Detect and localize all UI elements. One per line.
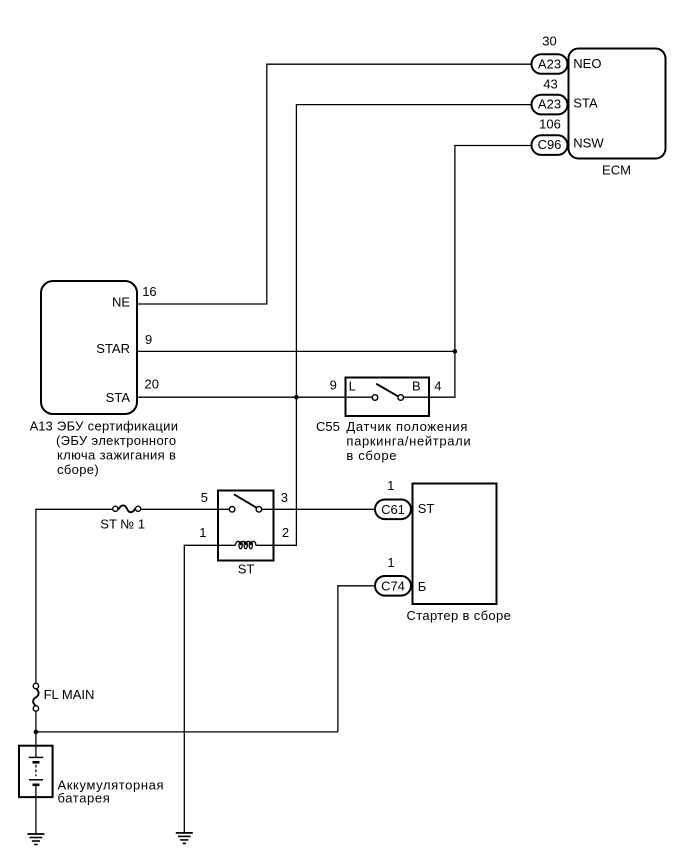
relay coil L xyxy=(236,541,256,549)
starter assembly box xyxy=(413,484,497,605)
starter relay ST box xyxy=(218,491,274,561)
junction STAR/NSW node xyxy=(453,349,458,354)
wire connector C74 to battery bus xyxy=(338,586,375,732)
svg-text:16: 16 xyxy=(142,284,156,299)
wire battery positive to fuse ST No.1 xyxy=(36,509,112,683)
connector oval A23 (ECM pin 43) xyxy=(532,95,568,115)
svg-text:STA: STA xyxy=(573,96,598,111)
C55 name label xyxy=(316,419,471,463)
svg-text:STAR: STAR xyxy=(96,341,130,356)
svg-text:L: L xyxy=(349,379,356,394)
svg-text:C61: C61 xyxy=(381,502,405,517)
relay switch contact circles xyxy=(229,507,235,513)
C55 park/neutral position switch box xyxy=(346,378,430,417)
wire STA from A13 to C55 pin 9 xyxy=(138,396,372,398)
svg-text:ЭБУ сертификации: ЭБУ сертификации xyxy=(57,419,178,434)
relay switch blade xyxy=(235,495,256,508)
svg-text:ST: ST xyxy=(238,562,255,577)
wire FL MAIN to battery xyxy=(35,712,37,758)
svg-text:3: 3 xyxy=(281,490,288,505)
svg-text:паркинга/нейтрали: паркинга/нейтрали xyxy=(346,434,471,449)
svg-text:батарея: батарея xyxy=(58,791,111,806)
junction battery/FL MAIN node xyxy=(34,730,39,735)
C55 switch blade xyxy=(377,384,399,397)
A13 certification ECU box xyxy=(41,281,137,414)
svg-text:A23: A23 xyxy=(538,56,561,71)
wire relay ST pin 3 to connector C61 xyxy=(262,508,375,510)
svg-text:20: 20 xyxy=(145,376,159,391)
svg-text:9: 9 xyxy=(330,378,337,393)
svg-text:1: 1 xyxy=(387,555,394,570)
svg-text:A23: A23 xyxy=(538,97,561,112)
fuse ST No.1 xyxy=(113,505,141,512)
svg-text:9: 9 xyxy=(145,332,152,347)
C55 switch contact circles xyxy=(372,395,378,401)
wire fuse ST No.1 to relay ST pin 5 xyxy=(141,508,229,510)
connector oval C74 (pin 1) xyxy=(375,576,411,596)
wire NE to ECM A23 pin 30 (NEO net) xyxy=(138,64,531,304)
battery box xyxy=(19,746,53,797)
wire STAR from A13 to NSW node xyxy=(138,350,455,352)
svg-text:5: 5 xyxy=(201,490,208,505)
svg-text:106: 106 xyxy=(539,116,561,131)
ECM box U1 xyxy=(569,49,666,159)
battery cell plates xyxy=(29,757,43,784)
connector oval C96 (ECM pin 106) xyxy=(532,135,568,155)
wire ECM C96 pin 106 to C55 pin 4 (NSW net) xyxy=(404,146,531,398)
connector oval A23 (ECM pin 30) xyxy=(532,54,568,74)
svg-text:30: 30 xyxy=(542,34,556,49)
A13 name label xyxy=(30,419,179,478)
svg-text:ключа зажигания в: ключа зажигания в xyxy=(57,448,176,463)
svg-text:ST: ST xyxy=(418,501,435,516)
junction STA/relay-coil node xyxy=(294,395,299,400)
svg-text:в сборе: в сборе xyxy=(346,448,397,463)
svg-text:ECM: ECM xyxy=(602,163,631,178)
svg-text:C55: C55 xyxy=(316,419,340,434)
svg-text:2: 2 xyxy=(282,525,289,540)
svg-text:A13: A13 xyxy=(30,419,53,434)
wire battery bus xyxy=(36,731,338,733)
svg-text:Датчик положения: Датчик положения xyxy=(346,419,468,434)
svg-text:NE: NE xyxy=(112,294,130,309)
svg-text:C74: C74 xyxy=(381,579,405,594)
svg-text:Б: Б xyxy=(418,579,427,594)
svg-text:сборе): сборе) xyxy=(57,462,99,477)
wire relay ST pin 1 to ground xyxy=(184,545,235,833)
svg-text:4: 4 xyxy=(434,379,441,394)
svg-text:B: B xyxy=(412,379,421,394)
battery name label xyxy=(58,778,165,806)
connector oval C61 (pin 1) xyxy=(375,500,411,520)
svg-text:43: 43 xyxy=(543,77,557,92)
svg-text:C96: C96 xyxy=(538,137,562,152)
svg-text:STA: STA xyxy=(106,390,131,405)
svg-text:FL MAIN: FL MAIN xyxy=(44,687,95,702)
svg-text:1: 1 xyxy=(199,525,206,540)
svg-text:NSW: NSW xyxy=(573,136,604,151)
svg-text:Стартер в сборе: Стартер в сборе xyxy=(407,608,512,623)
svg-text:ST № 1: ST № 1 xyxy=(100,517,145,532)
svg-text:NEO: NEO xyxy=(573,56,601,71)
fusible link FL MAIN xyxy=(33,683,38,711)
wire ECM A23 pin 43 to relay ST pin 2 (STA net) xyxy=(255,105,531,546)
ground (relay coil) xyxy=(176,833,193,844)
svg-text:1: 1 xyxy=(387,478,394,493)
svg-text:(ЭБУ электронного: (ЭБУ электронного xyxy=(56,433,176,448)
wire battery negative to ground xyxy=(35,785,37,834)
ground (battery) xyxy=(27,834,44,845)
